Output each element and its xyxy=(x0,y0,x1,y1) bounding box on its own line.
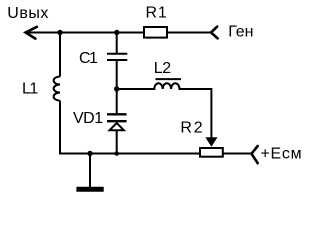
svg-text:Ген: Ген xyxy=(228,23,253,40)
svg-text:R1: R1 xyxy=(146,5,168,22)
svg-text:L1: L1 xyxy=(22,81,38,98)
svg-text:R2: R2 xyxy=(180,119,204,136)
svg-text:L2: L2 xyxy=(154,60,171,77)
svg-text:+Eсм: +Eсм xyxy=(261,145,303,162)
svg-text:Uвых: Uвых xyxy=(7,5,49,22)
svg-text:VD1: VD1 xyxy=(73,110,103,127)
svg-text:C1: C1 xyxy=(79,50,98,67)
